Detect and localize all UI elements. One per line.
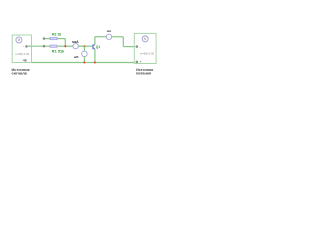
wire: collector up [94, 37, 96, 45]
power supply block box [134, 33, 156, 63]
svg-text:мкА: мкА [72, 40, 79, 44]
wire: R2 left lead [45, 38, 50, 40]
signal source block box [12, 35, 31, 63]
wire: R1 to microammeter [57, 45, 73, 47]
svg-text:ω=Б(=1 Б): ω=Б(=1 Б) [15, 52, 29, 56]
svg-text:питания: питания [136, 71, 151, 75]
svg-text:-: - [23, 44, 24, 48]
svg-text:+: + [140, 60, 142, 64]
voltage source symbol V1 (left) [16, 37, 22, 43]
wire: left box to R1 (main row) [27, 45, 50, 47]
wire: millivoltmeter down to rail [83, 57, 85, 63]
microammeter PA1 [73, 44, 78, 49]
node connector on main row [43, 45, 45, 47]
pin minus (right box upper) [136, 46, 138, 48]
wire: microammeter to Q1 base [78, 45, 92, 47]
svg-text:Q1: Q1 [96, 45, 100, 49]
millivoltmeter PV1 [82, 51, 88, 57]
junction dot (emitter on rail) [94, 62, 96, 64]
svg-text:+: + [22, 59, 24, 63]
transistor Q1 [93, 44, 95, 49]
wire: emitter down to rail [94, 49, 96, 62]
wire: milliammeter right [112, 36, 124, 38]
svg-text:сигнала: сигнала [12, 70, 28, 75]
node connector on R2 row [43, 38, 45, 40]
svg-text:R1 51k: R1 51k [52, 49, 65, 54]
voltage source symbol V2 (right) [142, 36, 148, 42]
svg-text:R2 2k: R2 2k [52, 32, 61, 36]
wire: R2 down to main row [64, 39, 66, 47]
milliammeter PA2 [106, 34, 111, 39]
resistor R2 [50, 38, 57, 40]
svg-text:мА: мА [107, 29, 112, 33]
wire: tap down to millivoltmeter [83, 46, 85, 51]
svg-text:ω=Б(=1 Б): ω=Б(=1 Б) [140, 51, 154, 55]
wire: collector row to milliammeter [95, 36, 106, 38]
wire: ground rail [32, 62, 135, 64]
resistor R1 [50, 45, 57, 47]
junction dot (voltmeter tap) [83, 45, 85, 47]
wire: down to supply minus row [122, 37, 124, 47]
wire: R2 right lead [57, 38, 65, 40]
svg-text:-: - [140, 45, 141, 49]
wire: into power supply minus pin [123, 46, 136, 48]
pin plus (right box lower) [136, 61, 138, 63]
svg-text:мВ: мВ [74, 55, 79, 59]
junction dot (R2 joins main row) [64, 45, 66, 47]
junction dot (voltmeter on rail) [83, 62, 85, 64]
